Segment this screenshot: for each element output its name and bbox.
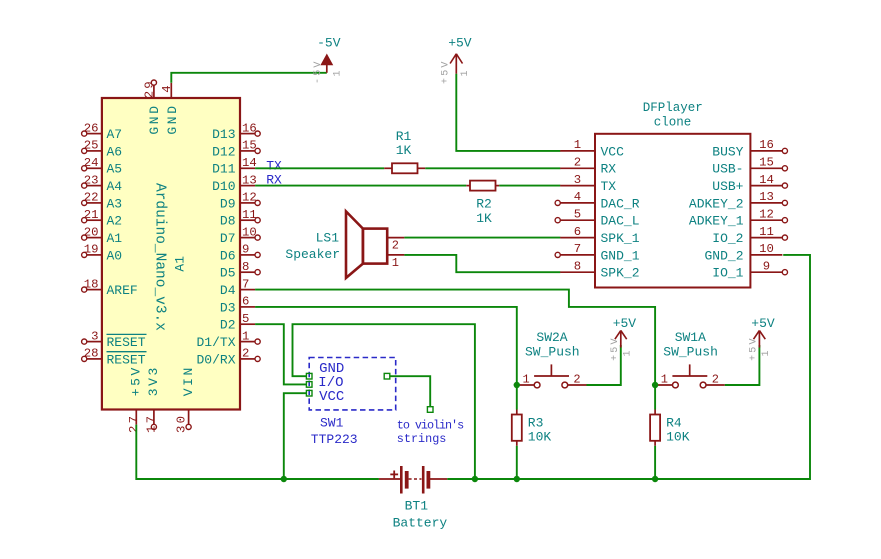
svg-text:1: 1 (574, 138, 581, 152)
svg-text:D13: D13 (212, 127, 235, 142)
resistor R3 (512, 410, 552, 446)
wire D2 to TTP223 I/O (255, 324, 306, 384)
svg-text:R4: R4 (666, 415, 682, 430)
arduino pin 30 (VIN) bottom (175, 365, 196, 433)
svg-text:10: 10 (242, 225, 257, 239)
junction D3 / SW2A / R3 (514, 382, 520, 388)
svg-text:A1: A1 (172, 256, 187, 272)
junction +5V rail / TTP VCC (281, 476, 287, 482)
svg-text:to violin's: to violin's (397, 419, 464, 433)
wire SW1A junction to R4 (654, 385, 656, 410)
DFPlayer pin 16 (BUSY) (712, 138, 787, 159)
svg-text:20: 20 (84, 225, 99, 239)
wire D4 to SW1A (255, 290, 655, 385)
wire ground rail to DFPlayer GND_2 (447, 255, 810, 479)
svg-text:SW_Push: SW_Push (525, 344, 580, 359)
svg-text:A5: A5 (107, 162, 123, 177)
svg-text:3: 3 (574, 173, 581, 187)
speaker LS1 (285, 211, 404, 278)
svg-text:25: 25 (84, 139, 99, 153)
svg-text:8: 8 (574, 259, 581, 273)
svg-text:A3: A3 (107, 196, 123, 211)
resistor R2 (466, 181, 499, 227)
svg-text:D8: D8 (220, 214, 236, 229)
arduino pin 10 (D7) right (220, 225, 260, 246)
svg-text:1: 1 (523, 373, 530, 387)
DFPlayer U1 body (595, 134, 750, 288)
arduino pin 23 (A4) left (82, 173, 123, 194)
svg-text:USB-: USB- (712, 162, 743, 177)
arduino pin 7 (D4) right (220, 277, 255, 298)
svg-text:R2: R2 (476, 197, 492, 212)
svg-text:SW2A: SW2A (536, 330, 567, 345)
svg-text:+5V: +5V (751, 316, 775, 331)
svg-text:A7: A7 (107, 127, 123, 142)
arduino A1 body (102, 98, 240, 410)
svg-text:GND_2: GND_2 (704, 248, 743, 263)
svg-text:D12: D12 (212, 144, 235, 159)
power +5V symbol above SW2A (610, 316, 636, 361)
DFPlayer pin 8 (SPK_2) (560, 259, 639, 280)
DFPlayer pin 10 (GND_2) (704, 242, 782, 263)
svg-text:11: 11 (242, 208, 257, 222)
svg-text:+5V: +5V (613, 316, 637, 331)
svg-text:16: 16 (242, 121, 257, 135)
svg-text:VCC: VCC (319, 389, 344, 405)
arduino pin 13 (D10) right (212, 173, 257, 194)
svg-text:13: 13 (242, 173, 257, 187)
svg-text:GND: GND (165, 103, 180, 134)
wire R3 to ground rail (516, 446, 518, 479)
svg-text:A6: A6 (107, 144, 123, 159)
svg-text:29: 29 (142, 79, 156, 98)
arduino pin 20 (A1) left (82, 225, 123, 246)
svg-text:24: 24 (84, 156, 99, 170)
arduino pin 29 (GND) top (142, 79, 162, 134)
arduino pin 2 (D0/RX) right (196, 347, 260, 368)
arduino pin 11 (D8) right (220, 208, 260, 229)
wire D11 to R1 (255, 167, 384, 169)
svg-text:28: 28 (84, 347, 99, 361)
svg-text:23: 23 (84, 173, 99, 187)
svg-text:TTP223: TTP223 (311, 432, 358, 447)
svg-text:+5V: +5V (129, 365, 144, 396)
svg-text:Arduino_Nano_v3.x: Arduino_Nano_v3.x (151, 183, 167, 331)
svg-text:10: 10 (759, 242, 774, 256)
svg-text:10K: 10K (528, 430, 552, 445)
svg-text:2: 2 (392, 238, 399, 252)
svg-text:19: 19 (84, 243, 99, 257)
wire GND pin4 to -5V (171, 73, 326, 83)
svg-text:D6: D6 (220, 248, 236, 263)
touch sensor SW1 TTP223 (dashed box) (309, 358, 396, 448)
switch SW2A SW_Push (517, 330, 587, 388)
svg-text:10K: 10K (666, 430, 690, 445)
svg-text:LS1: LS1 (316, 231, 340, 246)
DFPlayer pin 12 (ADKEY_1) (689, 207, 788, 228)
svg-text:9: 9 (763, 259, 770, 273)
svg-text:+5V: +5V (441, 59, 452, 84)
DFPlayer pin 11 (IO_2) (712, 225, 787, 246)
DFPlayer title (643, 101, 703, 130)
svg-text:SW1: SW1 (320, 416, 344, 431)
svg-text:1: 1 (761, 350, 772, 356)
svg-text:22: 22 (84, 191, 99, 205)
svg-text:Battery: Battery (393, 516, 448, 531)
svg-text:BUSY: BUSY (712, 144, 743, 159)
label TX (266, 159, 282, 174)
resistor R4 (650, 410, 690, 446)
power +5V symbol (top) (441, 36, 472, 85)
svg-text:1: 1 (623, 350, 634, 356)
svg-text:15: 15 (242, 139, 257, 153)
DFPlayer pin 1 (VCC) (560, 138, 624, 159)
power -5V symbol (313, 36, 344, 85)
arduino value Arduino_Nano_v3.x (151, 183, 167, 331)
junction gnd rail / R3 (514, 476, 520, 482)
svg-text:18: 18 (84, 277, 99, 291)
wire speaker pin1 to SPK_2 (404, 255, 560, 272)
svg-text:SPK_1: SPK_1 (601, 231, 640, 246)
svg-text:clone: clone (654, 115, 692, 129)
svg-text:D4: D4 (220, 283, 236, 298)
DFPlayer pin 2 (RX) (560, 156, 616, 177)
svg-text:D11: D11 (212, 162, 236, 177)
svg-text:8: 8 (242, 260, 249, 274)
svg-text:+5V: +5V (748, 336, 759, 361)
svg-text:D9: D9 (220, 196, 236, 211)
wire SW1A pin2 to +5V (725, 345, 760, 385)
arduino pin 12 (D9) right (220, 191, 260, 212)
wire to violin strings (384, 373, 433, 412)
svg-text:GND: GND (147, 103, 162, 134)
svg-text:SW1A: SW1A (675, 330, 706, 345)
svg-text:D3: D3 (220, 300, 236, 315)
svg-text:TX: TX (266, 159, 282, 174)
svg-text:26: 26 (84, 121, 99, 135)
svg-text:2: 2 (712, 373, 719, 387)
wire +5V pin27 down to rail (136, 425, 379, 479)
arduino pin 14 (D11) right (212, 156, 257, 177)
svg-text:2: 2 (574, 156, 581, 170)
DFPlayer pin 7 (GND_1) (555, 242, 640, 263)
DFPlayer pin 3 (TX) (560, 173, 616, 194)
svg-text:RESET: RESET (107, 335, 146, 350)
arduino pin 22 (A3) left (82, 191, 123, 212)
arduino pin 15 (D12) right (212, 139, 260, 160)
wire SW2A pin2 to +5V (587, 345, 621, 385)
svg-text:Speaker: Speaker (285, 247, 340, 262)
arduino pin 18 (AREF) left (82, 277, 138, 298)
svg-text:14: 14 (759, 173, 774, 187)
svg-text:D0/RX: D0/RX (196, 352, 235, 367)
svg-text:AREF: AREF (107, 283, 138, 298)
svg-text:strings: strings (397, 432, 447, 446)
svg-text:DFPlayer: DFPlayer (643, 101, 703, 115)
DFPlayer pin 6 (SPK_1) (560, 225, 640, 246)
wire TTP223 VCC to +5V rail (284, 393, 307, 479)
svg-text:A0: A0 (107, 248, 123, 263)
svg-text:1K: 1K (396, 143, 412, 158)
svg-text:5: 5 (242, 312, 249, 326)
wire D3 to SW2A (255, 307, 517, 385)
svg-text:11: 11 (759, 225, 774, 239)
svg-text:7: 7 (242, 277, 249, 291)
svg-text:RESET: RESET (107, 352, 146, 367)
wire D10 to R2 (255, 185, 466, 187)
DFPlayer pin 15 (USB-) (712, 156, 787, 177)
svg-text:2: 2 (573, 373, 580, 387)
wire +5V to DFPlayer VCC (456, 74, 560, 151)
svg-text:13: 13 (759, 190, 774, 204)
svg-text:30: 30 (175, 414, 189, 433)
arduino pin 9 (D6) right (220, 243, 260, 264)
DFPlayer pin 4 (DAC_R) (555, 190, 640, 211)
arduino pin 21 (A2) left (82, 208, 123, 229)
arduino pin 3 (RESET) left (82, 329, 147, 350)
svg-text:ADKEY_2: ADKEY_2 (689, 196, 744, 211)
svg-text:USB+: USB+ (712, 179, 743, 194)
svg-text:D1/TX: D1/TX (196, 335, 235, 350)
svg-text:IO_1: IO_1 (712, 266, 743, 281)
svg-text:D2: D2 (220, 318, 236, 333)
svg-text:1: 1 (661, 373, 668, 387)
svg-text:4: 4 (160, 85, 174, 92)
svg-text:15: 15 (759, 156, 774, 170)
svg-text:IO_2: IO_2 (712, 231, 743, 246)
svg-text:12: 12 (759, 207, 774, 221)
svg-text:A1: A1 (107, 231, 123, 246)
svg-text:12: 12 (242, 191, 257, 205)
svg-text:-5V: -5V (317, 36, 341, 51)
svg-text:+5V: +5V (448, 36, 472, 51)
svg-text:A4: A4 (107, 179, 123, 194)
DFPlayer pin 13 (ADKEY_2) (689, 190, 788, 211)
note to violin strings (397, 419, 464, 447)
arduino pin 19 (A0) left (82, 243, 123, 264)
DFPlayer pin 9 (IO_1) (712, 259, 787, 280)
svg-text:27: 27 (127, 414, 141, 433)
power +5V symbol above SW1A (748, 316, 774, 361)
svg-text:6: 6 (574, 225, 581, 239)
junction D4 / SW1A / R4 (652, 382, 658, 388)
svg-text:SW_Push: SW_Push (663, 344, 718, 359)
svg-text:GND_1: GND_1 (601, 248, 640, 263)
arduino pin 1 (D1/TX) right (196, 329, 260, 350)
svg-text:VIN: VIN (181, 365, 196, 396)
switch SW1A SW_Push (655, 330, 725, 388)
svg-text:BT1: BT1 (405, 498, 429, 513)
wire speaker pin2 to SPK_1 (404, 237, 560, 239)
svg-text:6: 6 (242, 295, 249, 309)
arduino pin 5 (D2) right (220, 312, 255, 333)
svg-text:RX: RX (601, 162, 617, 177)
svg-text:3: 3 (91, 329, 98, 343)
arduino pin 8 (D5) right (220, 260, 260, 281)
arduino pin 6 (D3) right (220, 295, 255, 316)
svg-text:DAC_L: DAC_L (601, 214, 640, 229)
DFPlayer pin 5 (DAC_L) (555, 207, 639, 228)
svg-text:1: 1 (242, 329, 249, 343)
svg-text:3V3: 3V3 (146, 365, 161, 396)
svg-text:7: 7 (574, 242, 581, 256)
svg-text:9: 9 (242, 243, 249, 257)
svg-text:4: 4 (574, 190, 581, 204)
arduino pin 16 (D13) right (212, 121, 260, 142)
label RX (266, 173, 282, 188)
svg-text:1: 1 (460, 70, 471, 76)
wire TTP223 GND to ground rail (293, 324, 475, 479)
svg-text:ADKEY_1: ADKEY_1 (689, 214, 744, 229)
wire SW2A junction to R3 (516, 385, 518, 410)
junction gnd rail / R4 (652, 476, 658, 482)
svg-text:D7: D7 (220, 231, 236, 246)
arduino pin 4 (GND) top (160, 83, 180, 135)
svg-text:SPK_2: SPK_2 (601, 266, 640, 281)
DFPlayer pin 14 (USB+) (712, 173, 787, 194)
svg-text:+5V: +5V (610, 336, 621, 361)
svg-text:A2: A2 (107, 214, 123, 229)
svg-text:5: 5 (574, 207, 581, 221)
svg-text:D10: D10 (212, 179, 235, 194)
arduino pin 24 (A5) left (82, 156, 123, 177)
svg-text:VCC: VCC (601, 144, 625, 159)
svg-text:2: 2 (242, 347, 249, 361)
svg-text:DAC_R: DAC_R (601, 196, 640, 211)
junction gnd rail / TTP GND (472, 476, 478, 482)
battery BT1 (379, 466, 448, 531)
arduino reference A1 (172, 256, 187, 272)
svg-text:14: 14 (242, 156, 257, 170)
svg-text:TX: TX (601, 179, 617, 194)
arduino pin 25 (A6) left (82, 139, 123, 160)
svg-text:16: 16 (759, 138, 774, 152)
arduino pin 26 (A7) left (82, 121, 123, 142)
wire R1 to DFPlayer RX (425, 167, 560, 169)
svg-text:17: 17 (145, 414, 159, 433)
svg-text:D5: D5 (220, 266, 236, 281)
svg-text:1: 1 (392, 256, 399, 270)
svg-text:21: 21 (84, 208, 99, 222)
svg-text:1: 1 (333, 70, 344, 76)
resistor R1 (384, 129, 425, 173)
arduino pin 17 (3V3) bottom (145, 365, 162, 433)
arduino pin 27 (+5V) bottom (127, 365, 144, 433)
svg-text:R3: R3 (528, 415, 544, 430)
TTP223 wire end squares (306, 373, 312, 396)
arduino pin 28 (RESET) left (82, 347, 147, 368)
svg-text:1K: 1K (476, 211, 492, 226)
wire R4 to ground rail (654, 446, 656, 479)
svg-text:-5V: -5V (313, 59, 324, 84)
wire R2 to DFPlayer TX (499, 185, 560, 187)
